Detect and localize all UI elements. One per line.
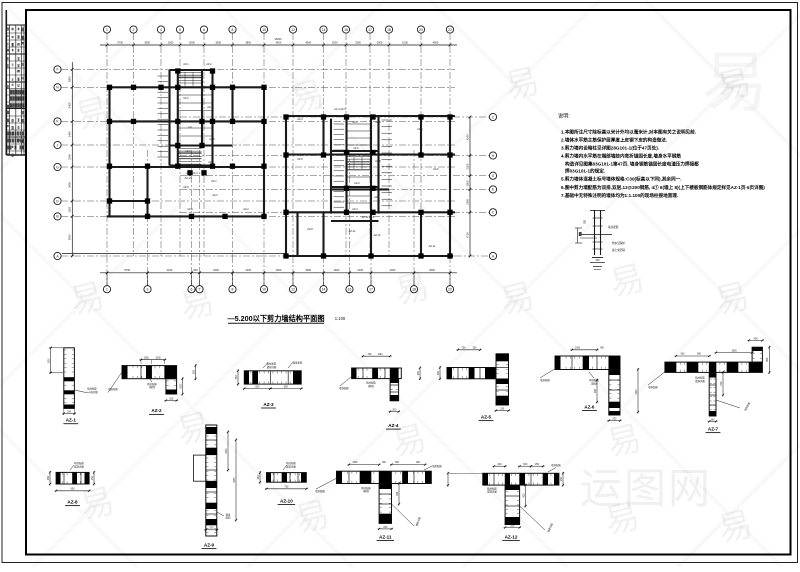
svg-text:墙身配筋: 墙身配筋 — [608, 225, 619, 229]
svg-text:17: 17 — [369, 288, 373, 292]
svg-text:600: 600 — [498, 463, 503, 466]
detail AZ-10 — [257, 461, 308, 504]
svg-text:250: 250 — [383, 526, 388, 529]
svg-text:AZ-8: AZ-8 — [67, 499, 78, 504]
svg-text:AZ-1: AZ-1 — [66, 418, 77, 423]
svg-text:2900: 2900 — [276, 268, 282, 272]
svg-text:300: 300 — [584, 219, 587, 224]
svg-text:2200: 2200 — [68, 154, 72, 160]
svg-text:箴筋详图: 箴筋详图 — [487, 490, 497, 494]
svg-text:14: 14 — [322, 288, 326, 292]
svg-text:AZ-1: AZ-1 — [183, 63, 189, 66]
core internal partition lines — [179, 72, 371, 203]
svg-text:AZ-7: AZ-7 — [708, 426, 719, 431]
svg-text:3: 3 — [147, 288, 149, 292]
svg-text:1800: 1800 — [636, 389, 638, 395]
svg-text:2400: 2400 — [68, 131, 72, 137]
svg-text:12: 12 — [291, 28, 295, 32]
svg-text:AZ-5: AZ-5 — [297, 158, 303, 161]
svg-text:(典型): (典型) — [149, 385, 156, 389]
svg-text:5750: 5750 — [124, 268, 130, 272]
svg-text:AZ-1 AZ-4: AZ-1 AZ-4 — [334, 108, 346, 111]
svg-text:AZ-8: AZ-8 — [375, 160, 381, 163]
detail AZ-6 — [540, 347, 639, 421]
svg-text:1000: 1000 — [402, 40, 408, 44]
svg-text:4500: 4500 — [276, 40, 282, 44]
svg-text:说明:: 说明: — [558, 112, 570, 120]
svg-text:350: 350 — [192, 369, 195, 374]
svg-text:配筋: 配筋 — [226, 516, 231, 520]
svg-text:250: 250 — [437, 370, 440, 375]
svg-text:AZ-10: AZ-10 — [185, 177, 192, 180]
svg-text:750: 750 — [284, 486, 289, 489]
svg-text:1050: 1050 — [144, 357, 150, 359]
svg-text:AZ-2: AZ-2 — [243, 208, 249, 211]
svg-text:250: 250 — [560, 477, 563, 482]
svg-text:4: 4 — [160, 28, 162, 32]
svg-text:17: 17 — [368, 28, 372, 32]
svg-text:(典型): (典型) — [591, 381, 598, 385]
svg-text:2-6: 2-6 — [188, 126, 192, 129]
svg-text:250: 250 — [169, 397, 174, 400]
svg-text:AZ-9: AZ-9 — [187, 208, 193, 211]
rebar tick marks near cores — [158, 76, 393, 207]
detail AZ-12 — [447, 463, 564, 541]
svg-text:AZ-12 AZ-1: AZ-12 AZ-1 — [362, 216, 375, 219]
svg-text:6.图中剪力墙配筋为双排,双层,12@200钢筋, 4① 6: 6.图中剪力墙配筋为双排,双层,12@200钢筋, 4① 6(墙上 8)(上下楼… — [561, 184, 765, 191]
svg-text:3050: 3050 — [305, 268, 311, 272]
svg-text:1.本图所注尺寸除标高以米计外均以毫米计,对本图有关之说明见: 1.本图所注尺寸除标高以米计外均以毫米计,对本图有关之说明见前. — [561, 129, 696, 136]
svg-text:2200: 2200 — [465, 163, 469, 169]
svg-text:18: 18 — [387, 28, 391, 32]
svg-text:1900: 1900 — [168, 40, 174, 44]
svg-text:箴筋详图: 箴筋详图 — [695, 379, 705, 383]
svg-text:AZ-9: AZ-9 — [374, 196, 380, 199]
svg-text:12: 12 — [291, 288, 295, 292]
svg-text:200: 200 — [67, 410, 72, 413]
svg-text:36200: 36200 — [274, 37, 282, 41]
svg-text:AZ-11: AZ-11 — [379, 534, 392, 539]
svg-text:AZ-4: AZ-4 — [209, 138, 215, 141]
plan vertical grid lines — [107, 33, 450, 286]
svg-text:素土夹回填: 素土夹回填 — [612, 248, 625, 252]
svg-text:5.剪力墙体混凝土标号墙体规格:C30(标高以下同),其余同: 5.剪力墙体混凝土标号墙体规格:C30(标高以下同),其余同一. — [561, 176, 681, 183]
svg-text:7: 7 — [199, 288, 201, 292]
svg-text:14: 14 — [322, 28, 326, 32]
svg-text:250: 250 — [500, 408, 505, 411]
right axis bubbles — [489, 113, 496, 259]
svg-text:16: 16 — [348, 288, 352, 292]
top axis bubbles — [103, 26, 453, 33]
svg-text:850: 850 — [766, 357, 769, 362]
svg-text:3600: 3600 — [429, 268, 435, 272]
svg-text:1100: 1100 — [378, 354, 384, 356]
svg-text:AZ-6: AZ-6 — [353, 147, 359, 150]
svg-text:墙身配筋: 墙身配筋 — [648, 385, 658, 389]
big gray watermark text bottom right — [580, 465, 712, 512]
svg-text:运图网: 运图网 — [580, 465, 712, 512]
svg-text:250: 250 — [209, 527, 214, 530]
svg-text:AZ-12: AZ-12 — [349, 230, 356, 233]
svg-text:250: 250 — [91, 476, 94, 481]
svg-text:8: 8 — [232, 28, 234, 32]
svg-text:200: 200 — [711, 418, 716, 421]
svg-text:AZ-1: AZ-1 — [352, 121, 358, 124]
stair treads center core — [348, 157, 371, 170]
svg-text:4200: 4200 — [465, 134, 469, 140]
svg-text:AZ-7: AZ-7 — [211, 180, 217, 183]
svg-text:AZ-9: AZ-9 — [204, 542, 215, 547]
svg-text:4.剪力墙内水平筋在端部墙肢内弯折锚固长度,墙身水平钢筋: 4.剪力墙内水平筋在端部墙肢内弯折锚固长度,墙身水平钢筋 — [561, 153, 681, 160]
svg-text:箴筋详图: 箴筋详图 — [74, 464, 84, 468]
svg-text:6: 6 — [191, 288, 193, 292]
svg-text:250: 250 — [417, 371, 420, 376]
svg-text:3300: 3300 — [355, 40, 361, 44]
svg-text:1: 1 — [106, 28, 108, 32]
svg-text:AZ-4: AZ-4 — [388, 423, 399, 428]
svg-text:900: 900 — [396, 491, 399, 496]
detail AZ-5 — [437, 347, 510, 420]
svg-text:墙身配筋: 墙身配筋 — [315, 489, 325, 493]
svg-text:5750: 5750 — [117, 40, 123, 44]
svg-text:200: 200 — [392, 409, 397, 412]
svg-text:2150: 2150 — [357, 268, 363, 272]
svg-text:3400: 3400 — [68, 102, 72, 108]
top dimension line — [100, 37, 457, 46]
svg-text:墙身配筋: 墙身配筋 — [551, 463, 561, 467]
svg-text:墙身配筋: 墙身配筋 — [540, 378, 550, 382]
svg-text:450: 450 — [754, 337, 759, 340]
svg-text:15: 15 — [344, 28, 348, 32]
svg-text:2.墙体水平筋主筋保护层厚度上皮钢下皮的构造做法.: 2.墙体水平筋主筋保护层厚度上皮钢下皮的构造做法. — [561, 137, 667, 144]
svg-text:250: 250 — [510, 524, 515, 527]
plan annotation texts — [183, 63, 439, 248]
svg-text:3950: 3950 — [144, 40, 150, 44]
svg-text:(典型): (典型) — [368, 384, 375, 388]
svg-text:AZ-5: AZ-5 — [183, 186, 189, 189]
svg-text:G: G — [492, 174, 495, 178]
svg-text:2300: 2300 — [465, 198, 469, 204]
title block tiny text marks — [6, 27, 24, 157]
svg-text:19: 19 — [412, 288, 416, 292]
svg-text:800: 800 — [179, 384, 182, 389]
svg-text:墙身配筋: 墙身配筋 — [432, 464, 442, 468]
svg-text:(典型): (典型) — [363, 489, 370, 493]
svg-text:J: J — [57, 143, 59, 147]
svg-text:3300: 3300 — [213, 268, 219, 272]
svg-text:AZ-2: AZ-2 — [354, 182, 360, 185]
shear walls thick lines — [62, 70, 455, 256]
svg-text:1050: 1050 — [352, 462, 358, 464]
svg-text:AZ-3: AZ-3 — [297, 118, 303, 121]
right dimension line — [465, 116, 471, 258]
svg-text:1800: 1800 — [731, 350, 737, 353]
svg-text:AZ-8: AZ-8 — [307, 228, 313, 231]
svg-text:易: 易 — [702, 45, 768, 119]
svg-text:22: 22 — [448, 288, 452, 292]
svg-text:4300: 4300 — [390, 268, 396, 272]
svg-text:AZ-10: AZ-10 — [280, 498, 293, 503]
svg-text:2600: 2600 — [334, 268, 340, 272]
svg-text:4700: 4700 — [465, 232, 469, 238]
svg-text:AZ-2: AZ-2 — [417, 128, 423, 131]
svg-text:250: 250 — [596, 259, 601, 262]
detail AZ-11 — [315, 462, 442, 540]
svg-text:250: 250 — [257, 475, 260, 480]
svg-text:AZ-6: AZ-6 — [584, 404, 595, 409]
svg-text:6: 6 — [203, 28, 205, 32]
svg-text:AZ-4: AZ-4 — [352, 208, 358, 211]
svg-text:10: 10 — [262, 28, 266, 32]
svg-text:800: 800 — [193, 268, 198, 272]
svg-text:250: 250 — [47, 476, 50, 481]
svg-text:3950: 3950 — [68, 234, 72, 240]
plan horizontal grid lines — [61, 69, 490, 256]
svg-text:焊03G101-1的规定.: 焊03G101-1的规定. — [565, 168, 605, 175]
svg-text:箴筋详图: 箴筋详图 — [267, 365, 277, 369]
svg-text:AZ-3: AZ-3 — [263, 402, 274, 407]
svg-text:500: 500 — [523, 463, 528, 466]
svg-text:1: 1 — [106, 288, 108, 292]
svg-text:F: F — [56, 68, 58, 72]
svg-text:4500: 4500 — [305, 40, 311, 44]
svg-text:5: 5 — [179, 28, 181, 32]
svg-text:ౠ筋详图: ౠ筋详图 — [86, 390, 98, 394]
svg-text:3150: 3150 — [245, 268, 251, 272]
svg-text:AZ-3: AZ-3 — [212, 194, 218, 197]
svg-text:墙身配筋: 墙身配筋 — [339, 386, 349, 390]
svg-text:600: 600 — [71, 488, 76, 491]
svg-text:防水层保护: 防水层保护 — [612, 241, 625, 245]
svg-text:22: 22 — [448, 28, 452, 32]
svg-text:3650: 3650 — [215, 40, 221, 44]
svg-text:构造详见图集03G101-1第47页, 墙身钢筋锚固长度电渣: 构造详见图集03G101-1第47页, 墙身钢筋锚固长度电渣压力焊接都 — [565, 161, 699, 168]
svg-text:4150: 4150 — [167, 268, 173, 272]
detail AZ-8 — [47, 461, 95, 505]
svg-text:AZ-2: AZ-2 — [206, 63, 212, 66]
wall base detail drawing — [575, 210, 612, 270]
svg-text:AZ-2: AZ-2 — [151, 408, 162, 413]
detail AZ-1 — [49, 347, 99, 424]
svg-text:AZ-6: AZ-6 — [208, 161, 214, 164]
svg-text:AZ-5: AZ-5 — [481, 414, 492, 419]
wall base detail labels — [584, 219, 626, 262]
detail AZ-2 — [108, 357, 197, 414]
svg-text:3.剪力墙内设暗柱见详图28G101-1(位于47页处).: 3.剪力墙内设暗柱见详图28G101-1(位于47页处). — [561, 145, 659, 152]
detail AZ-3 — [235, 361, 303, 408]
svg-text:3800: 3800 — [245, 40, 251, 44]
svg-text:3200: 3200 — [332, 40, 338, 44]
svg-text:AZ-1: AZ-1 — [185, 150, 191, 153]
stair treads left core — [179, 73, 202, 165]
svg-text:3400: 3400 — [68, 182, 72, 188]
svg-text:4350: 4350 — [234, 477, 236, 483]
svg-text:—5.200以下剪力墙结构平面图: —5.200以下剪力墙结构平面图 — [227, 314, 324, 323]
detail AZ-7 — [648, 337, 770, 432]
bottom axis bubbles — [103, 273, 453, 293]
svg-text:墙身配筋: 墙身配筋 — [108, 387, 118, 391]
svg-text:2: 2 — [133, 28, 135, 32]
svg-text:600: 600 — [255, 386, 260, 389]
svg-text:1800: 1800 — [68, 76, 72, 82]
svg-text:600: 600 — [284, 386, 289, 389]
svg-text:AZ-9: AZ-9 — [433, 168, 439, 171]
svg-text:箴筋详图: 箴筋详图 — [286, 464, 296, 468]
svg-text:1600: 1600 — [49, 358, 51, 364]
svg-text:AZ-3 AZ-4: AZ-3 AZ-4 — [186, 172, 198, 175]
svg-text:墙身配筋: 墙身配筋 — [293, 361, 303, 365]
svg-text:AZ-4: AZ-4 — [375, 121, 381, 124]
svg-text:1000: 1000 — [156, 357, 162, 359]
svg-text:AZ-12: AZ-12 — [505, 534, 518, 539]
svg-text:G: G — [56, 165, 59, 169]
detail AZ-4 — [339, 354, 421, 429]
svg-text:AZ-11: AZ-11 — [429, 245, 436, 248]
svg-text:20: 20 — [419, 28, 423, 32]
svg-text:AZ-2: AZ-2 — [207, 106, 213, 109]
svg-text:10: 10 — [262, 288, 266, 292]
svg-text:AZ-10: AZ-10 — [374, 234, 381, 237]
left dimension line — [68, 62, 74, 257]
svg-text:3000: 3000 — [377, 40, 383, 44]
detail AZ-9 — [193, 425, 237, 549]
svg-text:AZ-2: AZ-2 — [183, 97, 189, 100]
columns (black) — [107, 68, 453, 258]
svg-text:900: 900 — [522, 493, 525, 498]
svg-text:5000: 5000 — [189, 40, 195, 44]
svg-text:7.基础中无特殊注明的墙体均为1:1.100的现场柱接地直理: 7.基础中无特殊注明的墙体均为1:1.100的现场柱接地直理. — [561, 192, 678, 199]
svg-text:1050: 1050 — [575, 347, 581, 349]
svg-text:1:100: 1:100 — [335, 316, 346, 321]
title block table left strip — [6, 10, 26, 155]
svg-text:900: 900 — [594, 388, 597, 393]
svg-text:700: 700 — [720, 381, 723, 386]
svg-text:2600: 2600 — [226, 448, 228, 454]
svg-text:250: 250 — [612, 418, 617, 421]
svg-text:250: 250 — [535, 463, 540, 466]
bottom dimension line — [100, 268, 457, 274]
svg-text:1550: 1550 — [68, 206, 72, 212]
svg-text:250: 250 — [235, 375, 238, 380]
svg-text:1500: 1500 — [465, 180, 469, 186]
notes text block — [561, 129, 765, 200]
svg-text:4500: 4500 — [433, 40, 439, 44]
svg-text:8: 8 — [232, 288, 234, 292]
left axis bubbles — [54, 66, 61, 260]
